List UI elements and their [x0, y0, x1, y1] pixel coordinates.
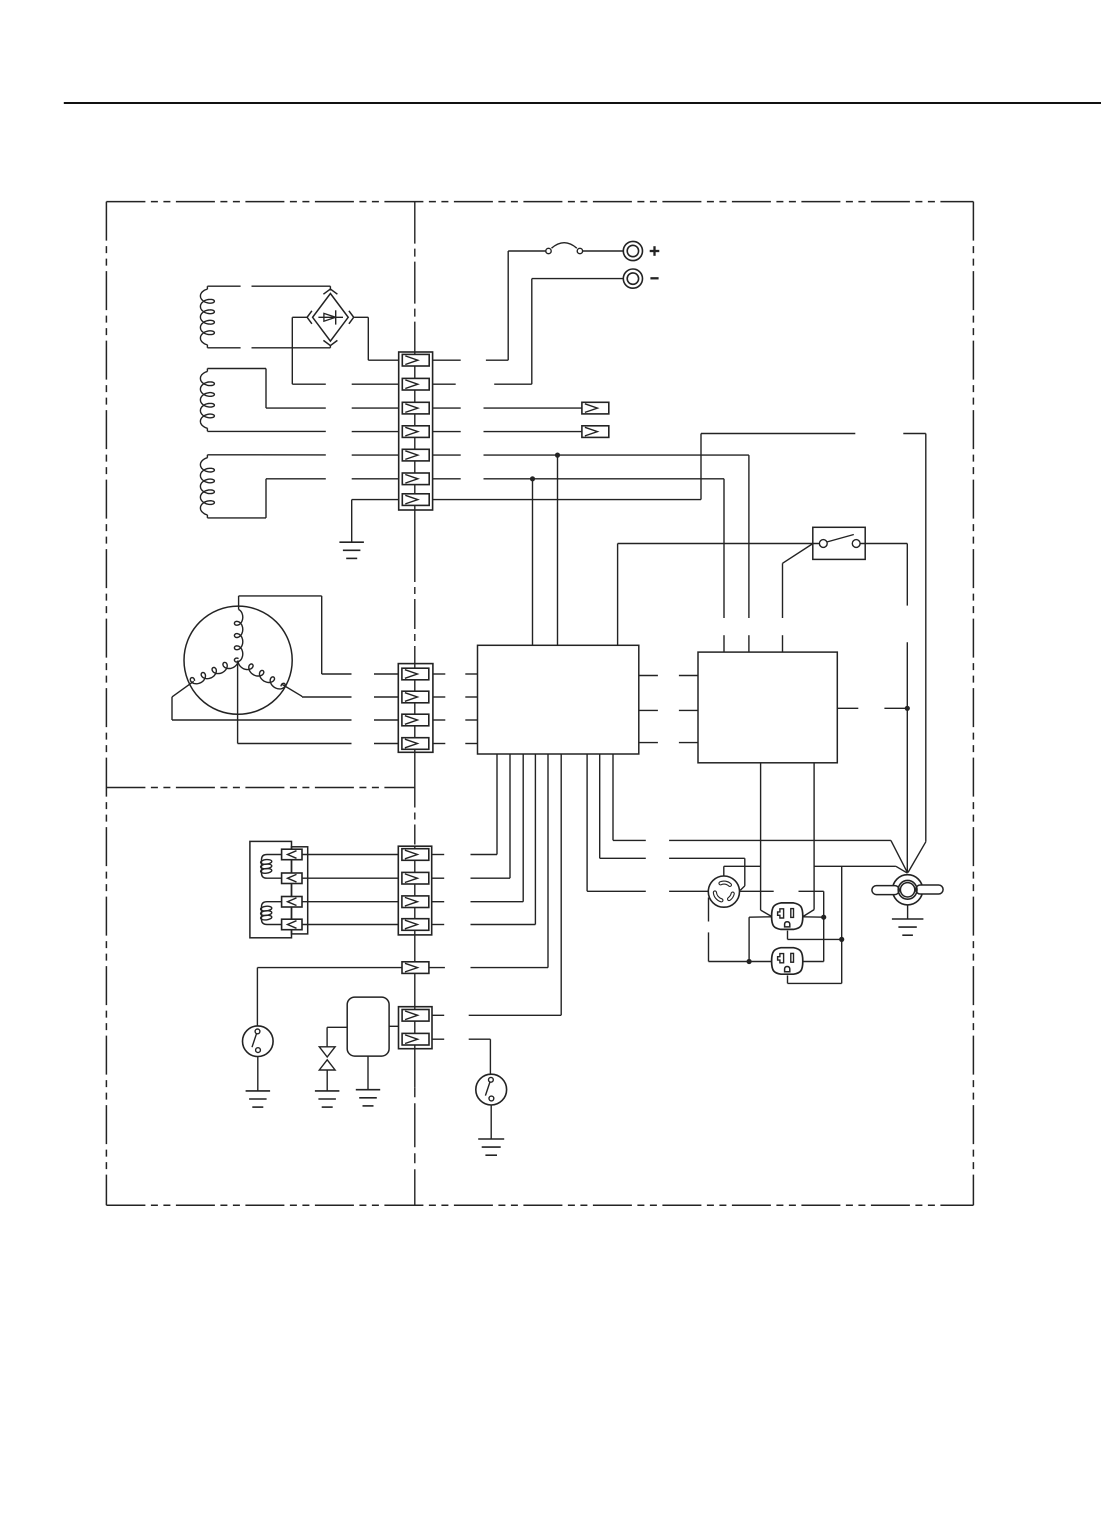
wire L1 top to rectifier [207, 286, 330, 290]
wire L2 top to connector row3 [207, 369, 398, 409]
wire rectifier left to connector row2 [292, 317, 398, 384]
connector strip CN2 [398, 664, 433, 753]
DC terminal negative [623, 269, 642, 288]
wire receptacle feed bus [788, 866, 908, 983]
generator 3-phase winding [184, 606, 292, 714]
terminal T4 [582, 426, 609, 438]
wire U1 to twistlock upper right [600, 754, 745, 890]
wire rectifier right to connector row1 [354, 317, 399, 360]
wire U1-U2 link a [639, 675, 698, 677]
wire U1 to frame ground [613, 754, 908, 873]
junction U2 ground net [905, 706, 910, 711]
wire ignition to CN3 row4 [302, 924, 398, 926]
wire CN2 row1 to control unit [433, 673, 478, 675]
ground G4 [246, 1091, 271, 1107]
wire U2 to receptacle R1 right [803, 763, 814, 917]
wire row1 to DC breaker [433, 251, 546, 360]
wire winding top to CN2 row1 [239, 596, 399, 674]
relay unit U2 [698, 652, 837, 763]
wire twistlock right to R2 right [740, 891, 824, 961]
wire ignition to CN3 row3 [302, 901, 398, 903]
wire TCI bottom to ground [367, 1056, 369, 1090]
junction R1 right [821, 915, 826, 920]
wire U1 to CN3 row2 [432, 754, 510, 878]
receptacle R1 [772, 903, 803, 930]
wire row3 to terminal T3 [433, 407, 582, 409]
control unit U1 [478, 645, 639, 754]
diode pair D2 [319, 1047, 335, 1070]
wire SW2 to ground [490, 1105, 492, 1139]
wire L1 bottom to rectifier [207, 345, 330, 348]
wire U1 to oil sensor connector [428, 754, 548, 968]
wire connector row7 to ground [352, 500, 399, 543]
connector strip CN3 [398, 846, 431, 935]
wire row5 to control unit and relay [433, 455, 749, 652]
enclosure border top [106, 201, 973, 203]
oil warning switch [813, 527, 865, 559]
wire twistlock top tap [724, 866, 761, 876]
enclosure border left [105, 202, 107, 1206]
wire R1 bottom [788, 931, 842, 940]
section divider vertical [414, 202, 416, 1206]
wire U1-U2 link c [639, 742, 698, 744]
enclosure border bottom [106, 1204, 973, 1206]
wire L3 bottom to connector row6 [207, 479, 398, 518]
DC breaker [546, 243, 624, 254]
wire CN4 row2 to engine switch [432, 1039, 490, 1074]
twist-lock receptacle [708, 876, 739, 907]
wire U2 right to ground net [837, 707, 907, 709]
TCI ignition unit [347, 997, 389, 1056]
wire row4 to terminal T4 [433, 431, 582, 433]
connector strip CN1 [399, 352, 433, 510]
wire CN2 row3 to control unit [433, 719, 478, 721]
wire R1 left tap [749, 917, 772, 962]
wire winding center to CN2 row4 [238, 661, 399, 744]
wire switch to relay [783, 544, 814, 653]
wire frame ground stub [907, 905, 909, 919]
connector strip CN4 [399, 1007, 433, 1049]
enclosure border right [972, 202, 974, 1206]
wire TCI to CN4 [389, 1025, 398, 1027]
engine stop switch SW1 [242, 1026, 273, 1057]
engine switch SW2 [476, 1074, 507, 1105]
wire switch right to junction [860, 544, 907, 873]
wire ignition to CN3 row2 [302, 877, 398, 879]
ground G6 [892, 919, 924, 935]
DC terminal positive [623, 241, 642, 260]
wire SW1 to ground [257, 1057, 259, 1091]
wire row6 to control unit and relay [433, 479, 724, 652]
wire CN2 row4 to control unit [433, 743, 478, 745]
section divider horizontal [106, 787, 414, 789]
ground G2 [315, 1091, 340, 1107]
wire diode to ground [326, 1070, 328, 1091]
oil sensor connector [402, 962, 429, 974]
wire R1 right tap [803, 916, 824, 918]
junction R1 bottom [839, 937, 844, 942]
ground G5 [478, 1139, 504, 1155]
ignition coil unit [250, 841, 308, 937]
junction R2 left [747, 959, 752, 964]
sub coil L2 [200, 369, 214, 432]
wire twistlock bottom to R2 left [709, 898, 772, 962]
wire winding right to CN2 row2 [282, 685, 398, 698]
label minus [650, 277, 658, 279]
wire row2 to DC negative [433, 279, 624, 385]
wire CN2 row2 to control unit [433, 696, 478, 698]
junction row6 [530, 476, 535, 481]
terminal T3 [582, 402, 609, 414]
wire U1 to twistlock left [587, 754, 708, 891]
wire U1-U2 link b [639, 709, 698, 711]
wire U1 to CN3 row3 [432, 754, 524, 902]
wire winding left to CN2 row3 [172, 681, 398, 720]
wire TCI left to diode [327, 1027, 347, 1047]
wire L2 bottom to connector row4 [207, 430, 398, 432]
wire U1 to CN4 row1 [432, 754, 561, 1015]
sub coil L3 [200, 455, 214, 518]
receptacle R2 [772, 948, 803, 975]
label plus [650, 246, 660, 256]
wire L3 top to connector row5 [207, 454, 398, 456]
lighting coil L1 [200, 286, 214, 348]
page top rule [64, 102, 1101, 104]
wire row7 to frame ground net [433, 434, 926, 842]
rectifier diode D1 [307, 289, 354, 346]
wire oil sensor to stop switch [257, 968, 402, 1026]
ground G3 [356, 1090, 380, 1106]
wire U1 to CN3 row4 [432, 754, 536, 925]
frame ground terminal [872, 842, 943, 905]
wire U1 to CN3 row1 [432, 754, 497, 855]
wire U2 to receptacle R1 left [761, 763, 772, 917]
wire switch to control unit [618, 544, 820, 646]
wire ignition to CN3 row1 [302, 854, 398, 856]
ground G1 [339, 542, 364, 558]
junction row5 [555, 453, 560, 458]
